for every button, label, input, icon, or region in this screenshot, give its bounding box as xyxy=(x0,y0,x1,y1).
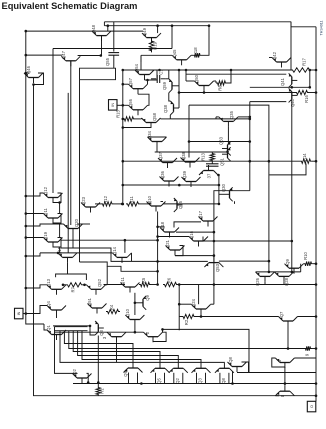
svg-text:Q30: Q30 xyxy=(221,183,226,192)
svg-text:8: 8 xyxy=(280,394,285,397)
transistor Q8a diode xyxy=(228,357,247,372)
transistor Q48 xyxy=(91,24,111,41)
wire Q41 upper y74.2 xyxy=(186,73,286,75)
svg-text:Q21: Q21 xyxy=(165,239,170,248)
transistor Q18 xyxy=(160,221,179,237)
wire x54.5 down to Q2 xyxy=(55,327,74,374)
transistor Q38c xyxy=(181,151,200,167)
wire x250.6 jog to x213.9 xyxy=(214,191,250,305)
svg-text:R8: R8 xyxy=(218,85,223,91)
bottom row transistor Q2b xyxy=(169,363,188,384)
svg-text:Q23: Q23 xyxy=(81,196,86,205)
left column transistor Q4 xyxy=(46,301,66,316)
svg-text:Q8: Q8 xyxy=(221,378,226,384)
svg-text:R19: R19 xyxy=(153,41,158,49)
svg-text:R6: R6 xyxy=(167,277,172,283)
transistor Q57 xyxy=(128,77,148,94)
wire x249.8 vertical xyxy=(249,102,251,119)
wire y261.1 xyxy=(158,260,208,262)
transistor Q56 xyxy=(128,98,148,115)
svg-text:Q10: Q10 xyxy=(125,308,130,317)
svg-text:Q11: Q11 xyxy=(120,277,125,285)
svg-text:R1: R1 xyxy=(99,388,104,394)
wire bottom right xyxy=(315,394,318,397)
wire Q42 collector to x291 vertical xyxy=(290,22,292,70)
svg-text:Q56: Q56 xyxy=(128,98,133,107)
wire top rail lower xyxy=(104,25,209,27)
svg-text:R18: R18 xyxy=(193,47,198,55)
svg-text:IN: IN xyxy=(111,103,115,107)
fan wire 4 xyxy=(78,331,179,363)
transistor Q2 with R1 xyxy=(72,369,92,384)
svg-text:Q28: Q28 xyxy=(284,277,289,286)
svg-text:R15: R15 xyxy=(116,109,121,117)
svg-text:Q42: Q42 xyxy=(272,51,277,60)
svg-text:R5: R5 xyxy=(141,277,146,283)
resistor R16 xyxy=(295,90,309,94)
wire Q45 emitter to Q54 node xyxy=(141,54,172,56)
vertical x157.6 from Q10 base xyxy=(157,212,159,285)
fan wire 2 xyxy=(69,331,304,349)
svg-text:Q45: Q45 xyxy=(172,49,177,58)
svg-text:Q37: Q37 xyxy=(158,151,163,160)
wire Q48 collector to rail xyxy=(107,26,109,31)
transistor Q59 xyxy=(162,79,178,93)
transistor Q34 diode-connected xyxy=(147,130,167,147)
wire y383.5 rail xyxy=(73,383,316,385)
transistor Q25 xyxy=(174,198,183,212)
wire Q47 base down xyxy=(70,61,72,225)
wire y141.5 xyxy=(189,141,250,143)
vertical x291.8 mid xyxy=(291,100,293,272)
capacitor C7 xyxy=(211,162,213,164)
svg-text:Q41: Q41 xyxy=(280,77,285,86)
transistor Q2a diode xyxy=(144,332,163,342)
fan wire 3 xyxy=(73,331,160,363)
wire Q57 base loop to Q56 collector xyxy=(138,94,149,105)
svg-text:Q11: Q11 xyxy=(43,208,48,216)
transistor Q3 xyxy=(95,321,104,336)
svg-text:R4: R4 xyxy=(109,304,114,310)
wire x218.9 vertical xyxy=(218,175,220,204)
wire loop above Q13 xyxy=(56,274,87,280)
left column transistor Q11 diode-connected xyxy=(43,208,63,224)
left column transistor Q1 xyxy=(46,325,66,340)
vertical x134.9 xyxy=(134,293,136,315)
svg-text:Q2: Q2 xyxy=(175,378,180,384)
pin box OUT xyxy=(307,401,316,412)
wire Q16 emitter link xyxy=(158,236,189,238)
wire x172 to rail xyxy=(171,26,173,49)
transistor Q10 xyxy=(147,195,166,211)
wire left rail IN bus xyxy=(26,31,143,324)
transistor Q10c xyxy=(125,308,144,325)
svg-text:Q3: Q3 xyxy=(99,330,104,336)
transistor Q39 xyxy=(182,170,201,187)
transistor Q11c xyxy=(120,277,140,293)
wire y48.5 with R19 branch xyxy=(53,48,172,50)
pin box IN+ xyxy=(15,308,24,319)
wire y105.1 and x268.9 down xyxy=(189,105,269,272)
transistor Q28 xyxy=(275,272,294,286)
left column transistor Q19 diode-connected xyxy=(43,231,63,247)
transistor Q20 xyxy=(64,218,83,234)
transistor Q42 xyxy=(272,51,291,67)
wire Q18 collector to Q17 xyxy=(174,222,201,228)
transistor Q15 xyxy=(57,246,77,263)
transistor Q7 xyxy=(279,311,298,326)
wire x198.6 Q24 collector link xyxy=(198,285,200,305)
svg-text:Q3: Q3 xyxy=(198,378,203,384)
transistor Q35 xyxy=(219,110,238,127)
svg-text:R12: R12 xyxy=(103,195,108,203)
vertical x98.3 down to R1 xyxy=(97,336,99,387)
bottom row transistor Q3b xyxy=(192,363,211,384)
wire Q49 collector to rail xyxy=(157,26,159,33)
svg-text:Q12: Q12 xyxy=(43,186,48,195)
transistor Q14 diode-connected xyxy=(112,246,132,263)
svg-text:Q14: Q14 xyxy=(112,246,117,255)
svg-text:R10: R10 xyxy=(303,251,308,259)
wire diode chain links xyxy=(59,203,61,214)
resistor R14 xyxy=(300,159,312,163)
resistor R6 xyxy=(163,282,178,286)
wire y372.5 xyxy=(249,372,316,374)
transistor Q41 xyxy=(280,73,297,87)
wire y118.9 right xyxy=(170,118,250,120)
wire Q18 emitter link xyxy=(158,226,165,228)
wire y101.6 Q40 emitter xyxy=(250,101,286,103)
wire Q47 collector to Q48 base xyxy=(78,55,101,57)
staircase from Q52 to right xyxy=(80,262,158,271)
wire top VCC rail upper xyxy=(104,21,291,23)
transistor Q9b xyxy=(123,363,143,377)
svg-text:Q20: Q20 xyxy=(74,218,79,227)
fan wire 6 xyxy=(60,331,224,363)
wire y118.9 to x249.8 down xyxy=(249,119,251,191)
svg-text:37: 37 xyxy=(207,173,212,178)
svg-text:Q10: Q10 xyxy=(147,195,152,204)
transistor Q53 xyxy=(204,257,223,272)
transistor Q8x diode xyxy=(275,358,294,368)
transistor Q30 xyxy=(221,183,233,201)
svg-text:Q53: Q53 xyxy=(215,263,220,272)
vertical x122.8 input rail xyxy=(122,70,124,204)
svg-text:R2: R2 xyxy=(184,319,189,325)
svg-text:Q9: Q9 xyxy=(145,295,150,301)
transistor Q45 xyxy=(172,49,191,65)
transistor Q16 xyxy=(189,230,208,246)
transistor Q36 xyxy=(160,170,179,186)
svg-text:Q59: Q59 xyxy=(162,81,167,90)
transistor Q51b xyxy=(220,147,231,166)
svg-text:Q9: Q9 xyxy=(123,371,128,377)
capacitor C1 xyxy=(151,78,156,80)
wire Q42 emitter stub xyxy=(269,57,272,59)
wire y329.4 to Q8a xyxy=(163,329,250,372)
wire y241 Q16 collector xyxy=(202,237,204,242)
svg-text:R14: R14 xyxy=(302,153,307,161)
wire Q50 base y92.5 xyxy=(203,91,205,93)
wire y332.2 row xyxy=(55,331,144,333)
wire y161 R14 row xyxy=(123,160,300,162)
svg-text:Q13: Q13 xyxy=(46,278,51,287)
transistor Q32 xyxy=(199,165,218,175)
svg-text:R13: R13 xyxy=(201,152,206,160)
transistor Q54 diode-connected xyxy=(134,63,154,80)
wire y271.9 xyxy=(256,271,301,273)
left column transistor Q13 xyxy=(46,278,66,294)
svg-text:Q39: Q39 xyxy=(182,170,187,179)
wire y232.1 xyxy=(176,231,214,233)
svg-text:Q7: Q7 xyxy=(279,311,284,317)
wire Q59 base bus x179 xyxy=(178,85,180,87)
wire R8 up to bias rail xyxy=(227,70,231,83)
svg-text:Q38: Q38 xyxy=(181,151,186,160)
transistor Q9 xyxy=(138,295,151,310)
wire y127.5 xyxy=(123,127,151,129)
wire Q47 emitter xyxy=(26,54,63,56)
transistor Q26 xyxy=(255,272,275,286)
transistor Q46 diode-connected xyxy=(24,65,43,83)
resistor R2 xyxy=(182,314,196,318)
resistor R8 xyxy=(214,80,217,82)
wire y152 center xyxy=(155,151,228,153)
svg-text:Q8: Q8 xyxy=(228,357,233,363)
svg-text:Q19: Q19 xyxy=(43,231,48,240)
wire y252.9 to Q14 xyxy=(40,252,113,254)
wire y248 jog to y261.4 xyxy=(61,248,158,261)
resistor R4 xyxy=(106,309,120,313)
bottom row transistor Q8c xyxy=(215,363,234,384)
wire stub loop under R14 xyxy=(269,164,306,175)
transistor Q58 xyxy=(142,112,161,128)
wire y70 bias rail xyxy=(123,69,291,71)
svg-text:9: 9 xyxy=(305,353,310,356)
wire y240.2 xyxy=(61,239,158,241)
wire jog to right rail xyxy=(291,22,316,27)
svg-text:2: 2 xyxy=(145,331,150,334)
wire x309.8 link xyxy=(309,70,311,87)
wire x53 vertical upper xyxy=(52,49,54,194)
svg-text:Q18: Q18 xyxy=(160,221,165,230)
fan wire 1 xyxy=(64,331,133,363)
transistor Q17 xyxy=(198,210,218,226)
svg-text:Q50: Q50 xyxy=(194,74,199,83)
transistor Q33 xyxy=(219,136,231,155)
fan wire 5 xyxy=(82,331,201,363)
resistor R5 xyxy=(139,282,151,286)
resistor R17 xyxy=(291,68,311,72)
wire Q38 lower to Q58 xyxy=(161,118,171,120)
wire row y284.5 xyxy=(104,284,126,286)
transistor Q8b output xyxy=(275,386,294,396)
wire y92.5 R16 feed xyxy=(179,92,295,94)
wire Q48 base xyxy=(101,36,103,56)
svg-text:R17: R17 xyxy=(302,57,307,65)
wire x179.2 vertical xyxy=(178,285,180,331)
capacitor Q55 between y48.5 and box xyxy=(113,22,115,52)
svg-text:Q54: Q54 xyxy=(134,63,139,72)
svg-text:IN: IN xyxy=(17,311,21,315)
pin box IN- xyxy=(109,100,118,111)
svg-text:Q40: Q40 xyxy=(290,98,295,107)
transistor Q51 xyxy=(87,297,107,313)
resistor R7 xyxy=(66,283,83,287)
svg-text:Q24: Q24 xyxy=(191,298,196,307)
svg-text:Q47: Q47 xyxy=(61,50,66,59)
wire Q7 base down to R9 wire xyxy=(287,327,289,349)
svg-text:Q9: Q9 xyxy=(285,259,290,265)
svg-text:Q36: Q36 xyxy=(160,170,165,179)
wire y87.3 xyxy=(250,86,310,88)
svg-text:O: O xyxy=(310,405,314,408)
transistor Q24 xyxy=(191,298,211,314)
svg-text:Q55: Q55 xyxy=(105,57,110,66)
svg-text:Q38: Q38 xyxy=(163,104,168,113)
svg-text:Q17: Q17 xyxy=(198,210,203,219)
transistor Q40 xyxy=(289,88,298,107)
transistor Q49 xyxy=(142,27,161,43)
svg-text:THS4011: THS4011 xyxy=(320,21,324,36)
svg-text:Q5: Q5 xyxy=(157,378,162,384)
transistor Q23 xyxy=(81,196,100,212)
svg-text:Q35: Q35 xyxy=(229,110,234,119)
svg-text:Q49: Q49 xyxy=(142,27,147,36)
wire x79.5 vertical xyxy=(79,80,81,262)
wire y325.9 stub to Q3 xyxy=(53,325,90,327)
svg-text:Q48: Q48 xyxy=(91,24,96,33)
svg-text:Q52: Q52 xyxy=(97,278,102,287)
transistor Q50 xyxy=(194,74,214,91)
transistor Q37 xyxy=(158,151,177,168)
wire bus rect above fan xyxy=(55,326,88,328)
svg-text:R16: R16 xyxy=(304,94,309,102)
left column transistor Q12 diode-connected xyxy=(43,186,63,203)
resistor R15 xyxy=(123,117,135,121)
transistor Q38 xyxy=(163,101,179,115)
resistor R1 xyxy=(97,381,100,384)
svg-text:Q26: Q26 xyxy=(255,277,260,286)
resistor R10 xyxy=(304,262,314,266)
transistor Q9r xyxy=(285,259,304,274)
transistor Q52 xyxy=(87,278,106,294)
svg-text:Q33: Q33 xyxy=(219,136,224,145)
wire R18 to rail xyxy=(202,26,210,56)
wire y316.5 bottom mid rail xyxy=(196,316,279,318)
svg-text:Q58: Q58 xyxy=(152,112,157,121)
resistor R12 xyxy=(101,202,114,206)
resistor R18 xyxy=(191,54,193,56)
resistor R13 xyxy=(210,152,214,162)
wire x189 link xyxy=(188,105,190,141)
resistor R19 xyxy=(151,38,153,40)
svg-text:C1: C1 xyxy=(159,69,164,75)
wire second left rail xyxy=(34,85,317,396)
transistor Q13b xyxy=(107,332,126,342)
wire y185 from x122.8 xyxy=(123,184,219,186)
transistor Q47 xyxy=(61,50,80,66)
svg-text:Q51: Q51 xyxy=(87,297,92,306)
svg-text:Q25: Q25 xyxy=(178,200,183,209)
resistor R9 xyxy=(304,346,312,350)
bottom row transistor Q5 xyxy=(151,363,170,384)
wire box loop below cap xyxy=(80,68,116,80)
resistor R11 xyxy=(126,202,140,206)
wire Q28 to R10 link xyxy=(300,264,302,272)
svg-text:Q57: Q57 xyxy=(128,77,133,86)
wire x69 vertical xyxy=(67,93,69,253)
svg-text:R7: R7 xyxy=(71,286,76,292)
wire y255.6 xyxy=(175,255,214,257)
svg-text:Q34: Q34 xyxy=(147,130,152,139)
wire right rail xyxy=(315,27,317,402)
svg-text:R11: R11 xyxy=(129,196,134,204)
transistor Q21 diode xyxy=(165,239,185,255)
